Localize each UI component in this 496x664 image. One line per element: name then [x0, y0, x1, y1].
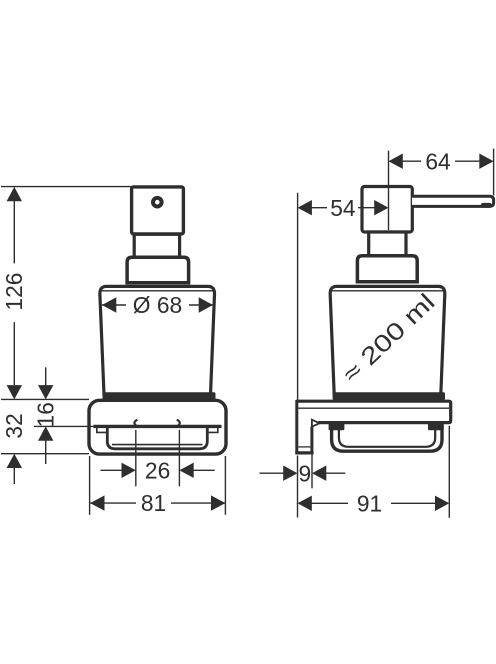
svg-text:9: 9	[298, 460, 311, 486]
svg-text:81: 81	[141, 490, 166, 516]
extension line holder top (front)	[1, 398, 89, 400]
pump spout	[412, 196, 494, 206]
wall holder (front view)	[89, 400, 226, 454]
dip tube arc right	[177, 420, 180, 427]
container base dark band	[103, 392, 216, 400]
pump neck (front view)	[134, 234, 179, 257]
wall bracket foot	[295, 451, 313, 454]
svg-text:91: 91	[357, 490, 382, 516]
dimension Ø 68	[102, 292, 213, 318]
wall bracket outer edge	[295, 400, 298, 454]
shelf (side view)	[296, 401, 451, 422]
shelf corner triangle	[312, 420, 320, 427]
extension line holder bottom (front)	[1, 453, 89, 455]
dimension 54	[298, 195, 389, 221]
pump head (front view)	[132, 187, 184, 234]
svg-text:26: 26	[145, 457, 170, 483]
container base dark band (side)	[333, 392, 445, 400]
dimension 126	[1, 187, 27, 400]
svg-text:126: 126	[1, 273, 27, 311]
glass container (front view)	[100, 286, 215, 394]
svg-text:54: 54	[330, 195, 356, 221]
pump collar (side view)	[357, 256, 417, 282]
extension line 64 left	[388, 151, 390, 230]
dimension 81	[90, 456, 226, 516]
dimension 26	[101, 430, 215, 487]
container rim inner line	[100, 290, 214, 292]
glass bottom line in opening	[112, 444, 203, 446]
svg-text:16: 16	[33, 402, 59, 427]
wall bracket inner edge	[310, 427, 313, 453]
pump neck (side view)	[369, 232, 406, 256]
dimension 32	[1, 413, 27, 484]
dimension 91	[298, 490, 450, 516]
ring plate step right	[207, 428, 218, 432]
holder ring plate edge	[94, 425, 222, 428]
svg-text:64: 64	[425, 148, 451, 174]
ring tab right (side)	[428, 423, 444, 430]
ring plate step left	[97, 428, 108, 432]
wall bracket fold line	[298, 446, 310, 448]
extension line wall lower	[297, 456, 299, 518]
pump collar (front view)	[127, 257, 189, 283]
glass bottom in ring (side)	[339, 427, 435, 447]
holder ring opening	[107, 427, 207, 449]
container rim inner line (side)	[331, 290, 445, 292]
svg-text:32: 32	[1, 413, 27, 438]
dimension 64	[389, 148, 494, 174]
dimension 9	[260, 460, 346, 486]
extension line bracket depth	[311, 455, 313, 489]
pump orifice circle	[153, 198, 162, 207]
ring band (side)	[332, 425, 442, 451]
extension line shelf right	[448, 426, 450, 518]
shelf front bevel line	[298, 407, 450, 409]
ring tab left (side)	[329, 423, 345, 430]
extension line top of pump (front)	[1, 186, 132, 188]
dimension 16	[33, 367, 59, 464]
extension line ring plate (front)	[34, 425, 94, 427]
spout nozzle line	[481, 203, 492, 208]
svg-text:Ø 68: Ø 68	[133, 292, 182, 318]
wall reference line	[297, 193, 299, 401]
pump body (side view)	[362, 187, 412, 233]
glass container (side view)	[330, 286, 445, 394]
dip tube arc left	[134, 420, 137, 427]
extension line 64 right	[493, 149, 495, 196]
